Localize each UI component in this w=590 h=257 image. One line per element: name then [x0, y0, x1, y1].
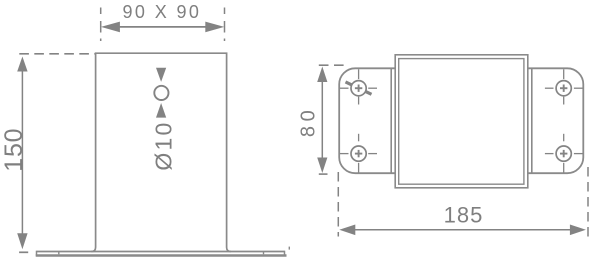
svg-text:90 X 90: 90 X 90: [122, 2, 201, 22]
svg-text:80: 80: [298, 106, 320, 137]
svg-text:150: 150: [0, 128, 28, 172]
svg-text:185: 185: [444, 203, 484, 228]
svg-text:Ø10: Ø10: [150, 121, 176, 171]
